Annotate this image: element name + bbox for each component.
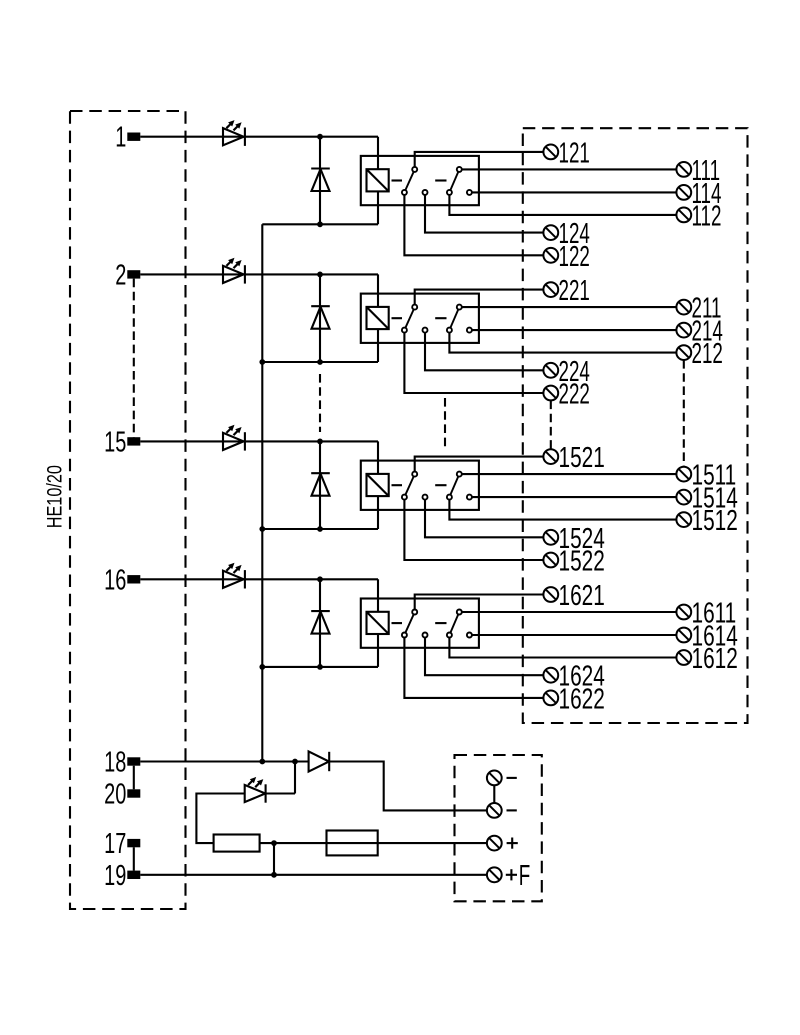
- svg-text:122: 122: [559, 241, 590, 273]
- svg-text:F: F: [519, 860, 530, 892]
- svg-text:15: 15: [104, 427, 126, 458]
- svg-text:1: 1: [115, 122, 126, 153]
- svg-text:19: 19: [104, 860, 126, 891]
- svg-text:1612: 1612: [692, 643, 738, 675]
- svg-text:1521: 1521: [559, 442, 605, 474]
- svg-text:121: 121: [559, 138, 590, 170]
- svg-text:16: 16: [104, 565, 126, 596]
- svg-text:1622: 1622: [559, 683, 605, 715]
- svg-text:1522: 1522: [559, 545, 605, 577]
- svg-text:221: 221: [559, 275, 590, 307]
- svg-text:1512: 1512: [692, 505, 738, 537]
- svg-text:212: 212: [692, 338, 723, 370]
- svg-text:17: 17: [104, 829, 126, 860]
- svg-text:18: 18: [104, 747, 126, 778]
- svg-text:1621: 1621: [559, 580, 605, 612]
- svg-text:112: 112: [692, 201, 722, 233]
- svg-text:20: 20: [104, 779, 126, 810]
- svg-text:2: 2: [115, 260, 126, 291]
- svg-text:222: 222: [559, 379, 590, 411]
- svg-text:HE10/20: HE10/20: [43, 465, 67, 528]
